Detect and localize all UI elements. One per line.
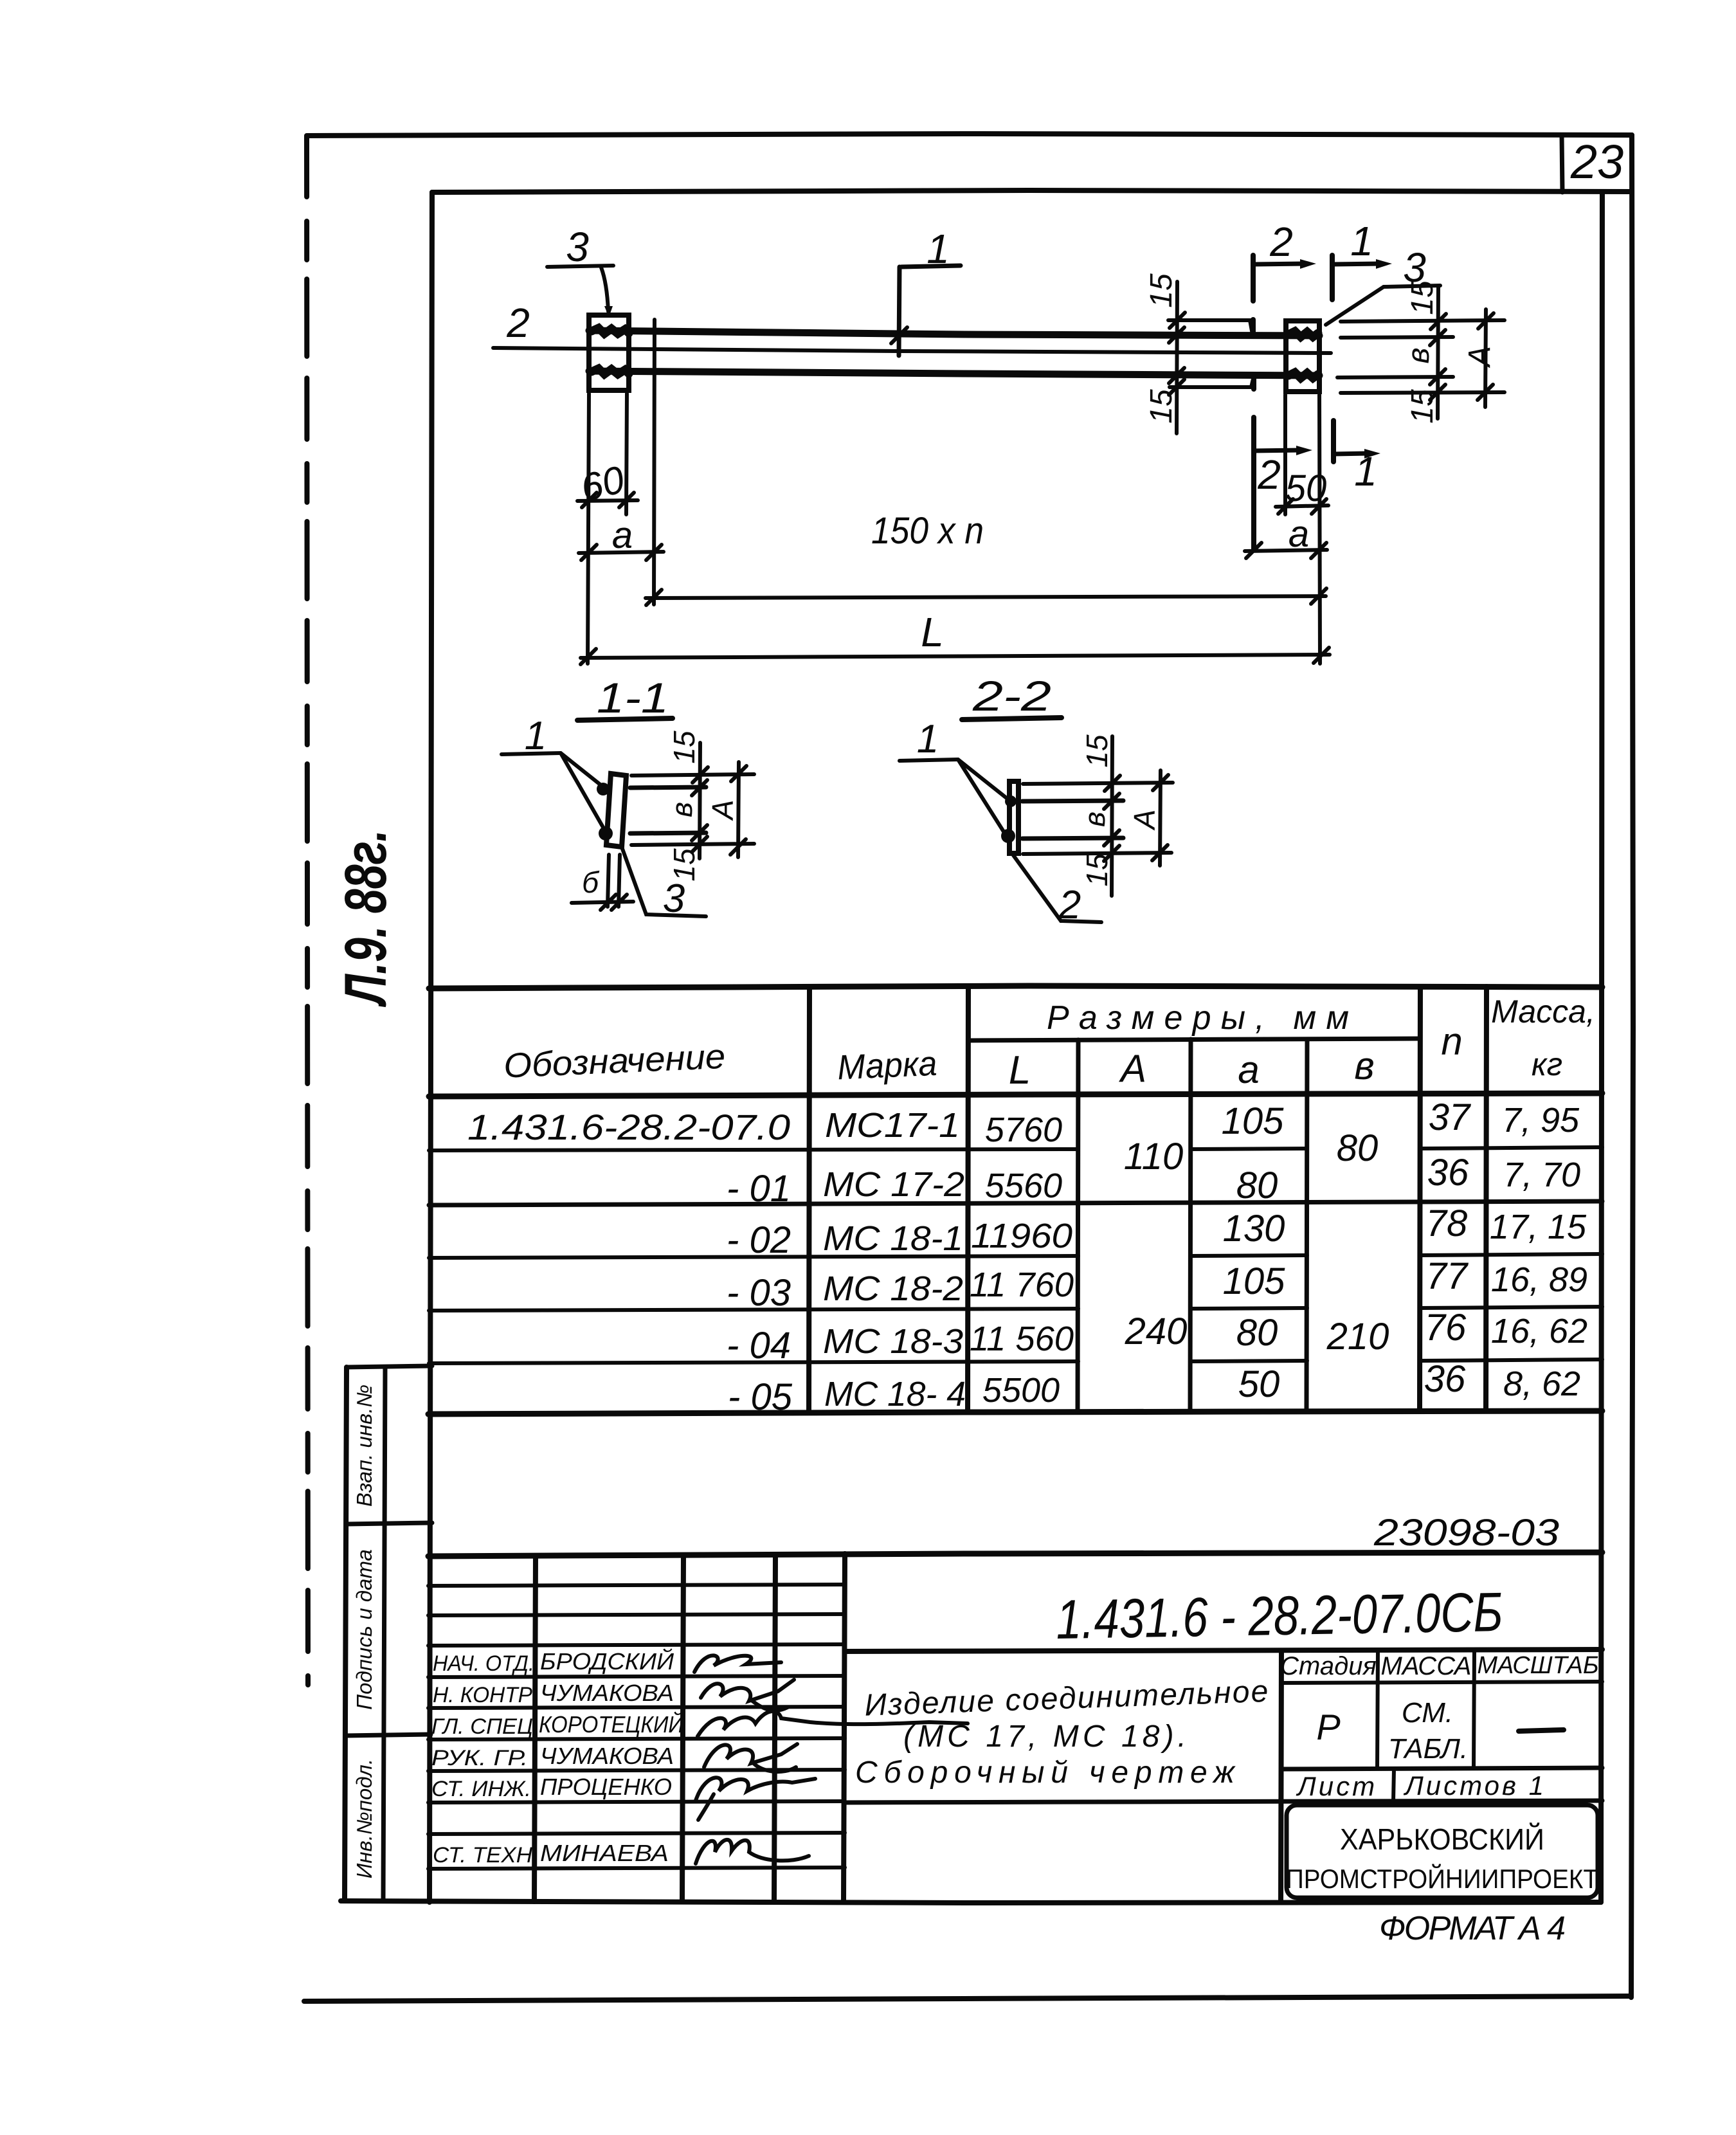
weld seam left plate bottom (592, 368, 629, 374)
leader from 3 to right plate (1326, 287, 1384, 325)
tb row line r4 (428, 1676, 845, 1677)
svg-text:130: 130 (1223, 1208, 1285, 1249)
svg-text:РУК. ГР.: РУК. ГР. (431, 1746, 528, 1770)
svg-text:ФОРМАТ А 4: ФОРМАТ А 4 (1379, 1910, 1566, 1947)
svg-text:210: 210 (1326, 1316, 1389, 1358)
dim line A (sec 2-2) (1160, 770, 1161, 866)
extension line right plate inner (1283, 395, 1287, 514)
svg-text:в: в (665, 802, 698, 817)
svg-text:Стадия: Стадия (1280, 1652, 1377, 1680)
svg-text:а: а (1238, 1048, 1259, 1091)
svg-text:СМ.: СМ. (1402, 1697, 1453, 1729)
slash (sec 1-1) p3 (692, 825, 707, 840)
svg-text:17, 15: 17, 15 (1490, 1208, 1587, 1246)
slash right 15 bot a (1430, 369, 1445, 385)
svg-text:Масса,: Масса, (1491, 994, 1595, 1030)
row line 5/6 segment right (1420, 1359, 1602, 1361)
svg-text:Л.9. 88г.: Л.9. 88г. (333, 830, 399, 1007)
left end plate (589, 315, 629, 390)
leader arrowhead left 3 (604, 306, 613, 317)
leader to lower weld (sec 1-1) (561, 753, 604, 830)
row line 4/5 segment a-col (1191, 1308, 1307, 1309)
tb vertical col3 (774, 1554, 775, 1902)
tb row line r5 (428, 1707, 845, 1708)
svg-text:5760: 5760 (985, 1111, 1062, 1149)
tb row line r1 (428, 1585, 845, 1586)
inner frame top (432, 190, 1632, 192)
slash б 1 (sec 1-1) (601, 895, 616, 910)
svg-text:240: 240 (1125, 1311, 1188, 1352)
svg-text:50: 50 (1285, 468, 1327, 509)
svg-text:ТАБЛ.: ТАБЛ. (1388, 1733, 1468, 1765)
svg-text:Листов 1: Листов 1 (1403, 1770, 1546, 1801)
dim line A (sec 1-1) (738, 762, 739, 857)
section mark 2 bottom-right cut stroke (1251, 417, 1256, 550)
ext line right plate bottom (1341, 392, 1505, 393)
svg-text:7, 95: 7, 95 (1502, 1101, 1580, 1140)
outer border top (307, 134, 1632, 136)
svg-text:11960: 11960 (971, 1217, 1072, 1255)
section mark 2 bottom-right view arrow (1254, 450, 1300, 451)
ext line plate top (sec 1-1) (631, 774, 754, 776)
svg-text:L: L (921, 609, 944, 655)
outer border left (broken/dashed scan line) (307, 136, 308, 1685)
svg-text:Сборочный чертеж: Сборочный чертеж (855, 1756, 1236, 1790)
tb vertical col1 (534, 1556, 536, 1902)
svg-text:77: 77 (1426, 1255, 1469, 1297)
dim line 15/в/15 right (1438, 287, 1438, 419)
svg-text:37: 37 (1429, 1096, 1472, 1138)
svg-text:1: 1 (1354, 448, 1377, 495)
slash A top (sec 1-1) (731, 766, 746, 781)
svg-text:A: A (1463, 346, 1497, 368)
leader to lower weld (sec 2-2) (958, 759, 1006, 835)
upper weld dot (sec 1-1) (597, 783, 610, 795)
leader from 3 to left plate (601, 268, 608, 311)
stamp strip row line 2 (345, 1734, 431, 1736)
slash A bottom (sec 2-2) (1152, 845, 1168, 860)
bar axis line (493, 348, 1331, 353)
stadia value dash (1519, 1730, 1564, 1731)
bar bottom edge (sec 1-1) (630, 833, 706, 833)
stamp strip row line 1 (346, 1523, 432, 1524)
svg-text:80: 80 (1337, 1127, 1379, 1169)
sheet number box divider (1562, 135, 1562, 192)
dim a-left line (579, 552, 664, 553)
lower weld dot (sec 1-1) (599, 826, 613, 840)
stamp strip left vertical (345, 1367, 347, 1901)
svg-text:кг: кг (1532, 1046, 1562, 1082)
extension line left plate inner (626, 394, 627, 514)
svg-text:б: б (582, 866, 600, 899)
bar top edge (sec 1-1) (630, 787, 706, 788)
column line n/Масса (1486, 986, 1487, 1411)
svg-text:105: 105 (1223, 1260, 1286, 1302)
svg-text:5560: 5560 (985, 1167, 1062, 1205)
tb row line r6 (428, 1738, 845, 1740)
svg-text:1-1: 1-1 (597, 674, 669, 722)
svg-text:150 x n: 150 x n (871, 510, 984, 552)
svg-text:МАСШТАБ: МАСШТАБ (1477, 1652, 1598, 1679)
section mark 1 top-right view arrow (1332, 264, 1381, 264)
dim L slash left (581, 649, 596, 664)
svg-text:СТ. ТЕХН: СТ. ТЕХН (433, 1843, 532, 1867)
dim a-right line (1245, 550, 1327, 551)
extension line right plate outer (1319, 395, 1320, 664)
section mark 1 top-right cut stroke (1330, 255, 1335, 300)
svg-text:Взап. инв.№: Взап. инв.№ (352, 1385, 376, 1507)
section mark 1 (middle) cut stroke (899, 267, 900, 356)
svg-text:1: 1 (917, 717, 939, 761)
stadia vertical 1 (1377, 1651, 1378, 1768)
svg-text:a: a (1288, 513, 1309, 555)
inner frame right (1601, 192, 1602, 1902)
row line 1/2 segment a-col (1191, 1149, 1307, 1149)
slash 15 lower b (1169, 379, 1184, 395)
slash right 15 bot b (1430, 385, 1445, 400)
dim L slash right (1314, 648, 1329, 663)
ext line plate bottom (sec 1-1) (631, 844, 754, 845)
svg-text:МС 18-1: МС 18-1 (823, 1219, 963, 1258)
bar bottom edge (sec 2-2) (1022, 838, 1123, 839)
dim 150xn line (646, 596, 1326, 598)
signature Чумакова 1 (701, 1680, 794, 1711)
label 3 underline (left) (547, 266, 613, 267)
row line 3/4 segment a-col (1191, 1255, 1307, 1256)
tb row line r8 (428, 1801, 845, 1803)
row line 3/4 segment left (429, 1256, 1078, 1258)
slash (sec 2-2) p1 (1105, 776, 1120, 791)
slash at cut 1 / bar top (891, 327, 907, 343)
cut 2 tick across bar bottom (right) (1251, 375, 1256, 389)
outer border bottom (304, 1996, 1631, 2001)
slash (sec 1-1) p1 (692, 767, 708, 783)
bar top edge (589, 331, 1319, 336)
extension line left plate outer (588, 394, 589, 664)
slash A bottom (sec 1-1) (730, 839, 746, 855)
row line 4/5 segment right (1420, 1307, 1602, 1308)
svg-text:n: n (1441, 1020, 1462, 1063)
inner frame / title block bottom (341, 1901, 1601, 1903)
stadia vertical 2 (1474, 1651, 1474, 1768)
svg-text:ПРОЦЕНКО: ПРОЦЕНКО (540, 1774, 672, 1800)
tb row line r10 (428, 1867, 845, 1869)
svg-text:ЧУМАКОВА: ЧУМАКОВА (540, 1743, 674, 1769)
row line 5/6 segment left (429, 1361, 1078, 1363)
tb row line r7 (428, 1770, 845, 1771)
signature Минаева (696, 1840, 809, 1864)
extension line a-left end (654, 320, 655, 604)
dim line б (sec 1-1) (572, 902, 633, 903)
svg-text:Обозначение: Обозначение (503, 1037, 726, 1086)
svg-text:БРОДСКИЙ: БРОДСКИЙ (540, 1648, 674, 1675)
stamp strip middle vertical (383, 1367, 385, 1901)
signature Бродский (694, 1655, 781, 1672)
лист row bottom (845, 1801, 1602, 1803)
svg-text:Размеры, мм: Размеры, мм (1047, 999, 1349, 1037)
svg-text:1.431.6 - 28.2-07.0СБ: 1.431.6 - 28.2-07.0СБ (1056, 1581, 1504, 1651)
cut 2 tick across bar top (right) (1251, 320, 1256, 336)
slash (sec 1-1) p4 (692, 837, 707, 852)
ext line plate-top level (left of right plate) (1168, 320, 1252, 334)
row line 2/3 full (429, 1201, 1602, 1205)
dim line 15/15 left of right plate (1177, 282, 1177, 433)
table top line (429, 986, 1602, 988)
section mark 2 top-right cut stroke (1251, 255, 1256, 301)
tb row line r3 (428, 1644, 845, 1646)
svg-text:15: 15 (1144, 273, 1179, 308)
svg-text:16, 89: 16, 89 (1491, 1260, 1587, 1299)
column line Марка/L (968, 986, 968, 1412)
slash 15 upper a (1170, 313, 1185, 328)
svg-text:15: 15 (1080, 853, 1114, 887)
weld seam left plate top (592, 328, 629, 334)
column line L/A (1078, 1040, 1078, 1412)
slash A top (1478, 313, 1494, 329)
column line в/n (1420, 986, 1420, 1411)
slash б 2 (sec 1-1) (611, 895, 627, 910)
slash (sec 2-2) p2 (1104, 794, 1119, 809)
dim 50 line (1276, 505, 1328, 507)
ext line right bar bottom (1337, 377, 1453, 377)
tb vertical col4 / right part boundary (844, 1554, 845, 1902)
slash A top (sec 2-2) (1153, 775, 1168, 790)
row line 3/4 segment right (1420, 1254, 1602, 1255)
svg-text:15: 15 (667, 731, 701, 764)
designation cell bottom (845, 1649, 1602, 1651)
dim 60 slash left (582, 493, 597, 507)
row line 1/2 segment right (1420, 1147, 1602, 1149)
svg-text:ГЛ. СПЕЦ: ГЛ. СПЕЦ (431, 1714, 533, 1739)
section mark 1 bottom-right cut stroke (1331, 421, 1336, 462)
dim 150xn slash right (1311, 588, 1326, 604)
svg-text:Р: Р (1316, 1707, 1340, 1747)
table bottom line (428, 1411, 1602, 1414)
label 3 underline (right) (1384, 286, 1440, 287)
svg-text:1.431.6-28.2-07.0: 1.431.6-28.2-07.0 (467, 1107, 790, 1147)
row line 1/2 segment left (429, 1149, 1078, 1150)
svg-text:2: 2 (1269, 219, 1293, 265)
arrowhead 1 top-right (1376, 259, 1392, 269)
item label 1 underline (sec 1-1) (502, 753, 561, 754)
svg-text:23098-03: 23098-03 (1373, 1512, 1559, 1554)
svg-text:в: в (1354, 1044, 1374, 1087)
svg-text:50: 50 (1238, 1363, 1280, 1405)
svg-text:СТ. ИНЖ.: СТ. ИНЖ. (431, 1777, 531, 1801)
svg-text:11 560: 11 560 (970, 1320, 1074, 1358)
dim 50 slash left (1278, 499, 1293, 514)
signature Проценко (696, 1777, 815, 1820)
plate (sec 1-1) (606, 774, 626, 847)
svg-text:МС 17-2: МС 17-2 (823, 1165, 964, 1204)
svg-text:Лист: Лист (1296, 1771, 1377, 1801)
svg-text:2: 2 (1058, 883, 1081, 927)
leader 3 polyline (sec 1-1) (622, 849, 706, 916)
ext line right plate top (1341, 320, 1505, 322)
inner frame left (429, 192, 432, 1902)
plate (sec 2-2) (1009, 781, 1018, 853)
right end plate (1286, 321, 1319, 392)
svg-text:80: 80 (1236, 1165, 1278, 1206)
svg-text:МС 18-2: МС 18-2 (823, 1269, 963, 1308)
svg-text:a: a (612, 514, 633, 556)
svg-text:Изделие соединительное: Изделие соединительное (864, 1675, 1269, 1723)
row line 5/6 segment a-col (1191, 1361, 1307, 1361)
svg-text:НАЧ. ОТД.: НАЧ. ОТД. (433, 1651, 534, 1676)
ext line plate bottom (sec 2-2) (1023, 853, 1171, 854)
ext line plate-bottom level (left of right plate) (1170, 376, 1254, 387)
svg-text:7, 70: 7, 70 (1503, 1156, 1580, 1194)
svg-text:2: 2 (1257, 451, 1281, 498)
ext line plate top (sec 2-2) (1023, 783, 1173, 784)
dim 60 line (577, 500, 638, 501)
svg-text:A: A (706, 800, 739, 822)
svg-text:105: 105 (1222, 1100, 1285, 1142)
leader 2 polyline (sec 2-2) (1013, 855, 1101, 922)
description / stadia divider (1281, 1651, 1281, 1902)
svg-text:(МС 17, МС 18).: (МС 17, МС 18). (903, 1720, 1186, 1754)
svg-text:в: в (1402, 347, 1436, 363)
svg-text:Н. КОНТР: Н. КОНТР (433, 1683, 532, 1707)
section mark 2 top-right view arrow (1253, 264, 1305, 264)
svg-text:16, 62: 16, 62 (1491, 1312, 1587, 1350)
section mark 1 (middle) underline (901, 266, 961, 267)
svg-text:2: 2 (506, 300, 530, 346)
svg-text:А: А (1119, 1047, 1146, 1090)
upper weld dot (sec 2-2) (1005, 795, 1017, 807)
svg-text:Марка: Марка (836, 1044, 937, 1087)
slash right 15 top b (1430, 330, 1445, 345)
svg-text:15: 15 (1144, 389, 1179, 424)
table разделитель Размеры header (968, 1039, 1420, 1040)
section 2-2 title underline (962, 718, 1062, 720)
svg-text:78: 78 (1426, 1203, 1468, 1244)
leader to upper weld (sec 2-2) (958, 759, 1008, 799)
svg-text:МИНАЕВА: МИНАЕВА (540, 1840, 669, 1866)
svg-text:Подпись и дата: Подпись и дата (352, 1549, 376, 1710)
svg-text:- 03: - 03 (727, 1272, 791, 1314)
svg-text:ХАРЬКОВСКИЙ: ХАРЬКОВСКИЙ (1340, 1822, 1544, 1856)
leader to upper weld (sec 1-1) (561, 753, 602, 786)
stadia value row bottom (1281, 1768, 1602, 1769)
svg-text:ПРОМСТРОЙНИИПРОЕКТ: ПРОМСТРОЙНИИПРОЕКТ (1286, 1863, 1598, 1894)
signature Коротецкий (698, 1711, 968, 1736)
svg-text:5500: 5500 (982, 1371, 1060, 1410)
column line Обозначение/Марка (809, 987, 809, 1413)
svg-text:- 05: - 05 (728, 1376, 793, 1418)
weld seam right plate bottom (1288, 372, 1318, 378)
svg-text:110: 110 (1124, 1136, 1183, 1177)
stadia header bottom (1281, 1682, 1602, 1683)
row line 4/5 segment left (429, 1309, 1078, 1311)
org cell inner rounded box (1287, 1805, 1598, 1898)
column line A/a (1190, 1039, 1191, 1412)
svg-text:36: 36 (1427, 1152, 1469, 1194)
svg-text:23: 23 (1570, 135, 1623, 188)
dim a-left slash 2 (646, 545, 662, 560)
svg-text:ЧУМАКОВА: ЧУМАКОВА (540, 1680, 674, 1706)
tb row line r2 (428, 1614, 845, 1615)
svg-text:- 04: - 04 (727, 1325, 791, 1367)
arrowhead 2 bottom-right (1296, 446, 1312, 455)
лист divider (1393, 1769, 1394, 1802)
stamp strip top line (347, 1366, 432, 1367)
slash 15 upper b (1169, 327, 1184, 343)
slash right 15 top a (1431, 314, 1446, 329)
svg-text:Инв.№подл.: Инв.№подл. (352, 1759, 376, 1878)
svg-text:8, 62: 8, 62 (1503, 1365, 1580, 1403)
dim 150xn slash left (646, 590, 662, 605)
column line a/в (1307, 1039, 1307, 1412)
slash A bottom (1478, 385, 1493, 400)
title block top line (428, 1552, 1602, 1556)
dim a-right slash 2 (1311, 543, 1326, 558)
arrowhead 1 bottom-right (1364, 449, 1380, 459)
svg-text:2-2: 2-2 (972, 672, 1051, 720)
item label 1 underline (sec 2-2) (900, 759, 958, 761)
dim line 15/в/15 (sec 1-1) (700, 743, 700, 859)
tb row line r9 (428, 1833, 845, 1834)
svg-text:МАССА: МАССА (1381, 1652, 1472, 1680)
section mark 1 bottom-right view arrow (1334, 453, 1368, 454)
dim line 15/в/15 (sec 2-2) (1112, 736, 1112, 896)
dim a-left slash 1 (581, 545, 597, 560)
svg-text:76: 76 (1425, 1307, 1467, 1349)
slash (sec 2-2) p4 (1104, 846, 1119, 861)
svg-text:80: 80 (1236, 1312, 1278, 1354)
SEC_SECTION11B (900, 672, 1173, 927)
bar top edge (sec 2-2) (1022, 801, 1123, 801)
svg-text:15: 15 (1406, 280, 1440, 315)
svg-text:- 01: - 01 (727, 1168, 791, 1210)
slash (sec 2-2) p3 (1104, 830, 1119, 846)
svg-text:в: в (1078, 812, 1111, 827)
svg-text:МС17-1: МС17-1 (825, 1106, 960, 1145)
svg-text:15: 15 (1406, 389, 1440, 424)
svg-text:15: 15 (1080, 734, 1114, 768)
svg-text:A: A (1128, 810, 1161, 831)
arrowhead 2 top-right (1300, 259, 1316, 269)
dim a-right slash 1 (1246, 543, 1261, 558)
dim 50 slash right (1312, 499, 1326, 514)
outer border right (1631, 135, 1633, 1997)
dim line A right (1485, 309, 1486, 407)
bar bottom edge (589, 371, 1319, 376)
svg-text:36: 36 (1424, 1358, 1466, 1400)
section 1-1 title underline (577, 718, 673, 720)
ext line б right (sec 1-1) (619, 855, 620, 907)
tb vertical col2 (682, 1555, 683, 1902)
dim L line (581, 655, 1330, 658)
slash (sec 1-1) p2 (692, 780, 707, 795)
signature Чумакова 2 (704, 1744, 797, 1772)
dim 60 slash right (619, 493, 634, 507)
svg-text:КОРОТЕЦКИЙ: КОРОТЕЦКИЙ (539, 1711, 683, 1738)
svg-text:L: L (1009, 1048, 1031, 1093)
svg-text:3: 3 (663, 877, 685, 921)
ext line б left (sec 1-1) (608, 855, 609, 907)
ext line right bar top (1341, 337, 1453, 338)
svg-text:МС 18-3: МС 18-3 (823, 1322, 963, 1361)
svg-text:1: 1 (1350, 218, 1373, 264)
table header bottom line (429, 1093, 1602, 1096)
svg-text:3: 3 (566, 224, 589, 270)
lower weld dot (sec 2-2) (1001, 829, 1015, 843)
slash 15 lower a (1169, 368, 1184, 383)
svg-text:- 02: - 02 (727, 1219, 791, 1261)
weld seam right plate top (1288, 331, 1318, 337)
svg-text:11 760: 11 760 (970, 1266, 1074, 1304)
